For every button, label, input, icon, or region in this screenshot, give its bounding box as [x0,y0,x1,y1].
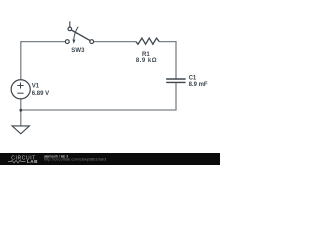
node junction dot [19,109,22,112]
switch SW3 actuation arrow [72,27,78,44]
svg-text:V1: V1 [32,83,40,89]
voltage source V1 [11,80,30,99]
switch SW3 top stub [69,21,71,27]
svg-text:6.89 V: 6.89 V [32,91,49,97]
watermark bar [0,153,220,165]
label 8.9 kOhm [136,58,157,64]
resistor R1 [136,38,159,44]
wire top-left rail: V1 top to switch [21,42,66,80]
switch SW3 terminal circles [65,27,93,43]
label C1 [189,76,197,82]
CircuitLab logo zigzag [8,160,26,162]
ground [12,126,29,134]
svg-text:http://circuitlab.com/c6wp38b2: http://circuitlab.com/c6wp38b2/lab3 [44,158,106,162]
svg-text:LAB: LAB [27,159,38,164]
wire V1 bottom to node [20,99,22,110]
label 8.9 mF [189,82,208,88]
capacitor C1 [166,79,185,82]
watermark text line 2 [44,158,106,162]
svg-text:SW3: SW3 [71,48,85,54]
wire capacitor C1 to bottom rail (bottom-right corner) [21,82,176,110]
switch SW3 blade [71,30,90,41]
wire resistor to capacitor C1 (top-right corner) [159,42,176,79]
label 6.89 V [32,91,49,97]
wire switch to resistor R1 [94,41,136,43]
CircuitLab logo CIRCUIT [11,155,36,161]
label R1 [142,52,150,58]
label SW3 [71,48,85,54]
wire node to ground [20,110,22,126]
watermark text line 1 [44,155,68,159]
svg-text:8.9 kΩ: 8.9 kΩ [136,58,157,64]
svg-text:8.9 mF: 8.9 mF [189,82,208,88]
svg-text:C1: C1 [189,76,197,82]
CircuitLab logo LAB [27,159,38,164]
label V1 [32,83,40,89]
